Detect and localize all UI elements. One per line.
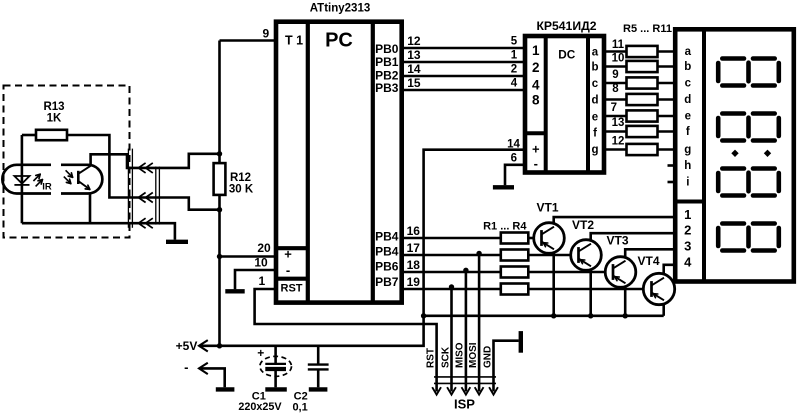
svg-text:1: 1: [684, 207, 691, 222]
svg-text:MISO: MISO: [455, 342, 466, 368]
svg-text:f: f: [593, 128, 597, 140]
svg-text:6: 6: [511, 153, 517, 165]
svg-text:19: 19: [407, 275, 421, 289]
svg-text:0,1: 0,1: [292, 402, 307, 414]
svg-text:R13: R13: [43, 101, 64, 113]
svg-text:-: -: [534, 156, 538, 171]
svg-text:13: 13: [612, 117, 625, 129]
svg-text:VT3: VT3: [606, 234, 628, 248]
svg-text:i: i: [686, 177, 689, 189]
svg-text:b: b: [591, 62, 598, 74]
svg-text:c: c: [592, 78, 599, 90]
svg-text:5: 5: [511, 36, 518, 48]
svg-text:13: 13: [407, 48, 421, 62]
svg-text:11: 11: [612, 39, 625, 51]
svg-text:14: 14: [407, 62, 421, 76]
svg-text:DC: DC: [558, 47, 576, 61]
svg-text:10: 10: [612, 53, 625, 65]
svg-text:16: 16: [407, 224, 421, 238]
svg-text:8: 8: [612, 83, 619, 95]
svg-text:IR: IR: [42, 182, 52, 193]
svg-text:1: 1: [259, 274, 266, 288]
svg-text:12: 12: [407, 34, 421, 48]
svg-text:7: 7: [611, 102, 617, 114]
svg-text:9: 9: [612, 69, 618, 81]
svg-text:T 1: T 1: [285, 34, 303, 48]
svg-text:1K: 1K: [47, 113, 62, 125]
svg-text:PB0: PB0: [375, 42, 399, 56]
svg-text:ATtiny2313: ATtiny2313: [310, 3, 371, 15]
svg-text:VT1: VT1: [536, 201, 558, 215]
svg-text:h: h: [684, 160, 691, 172]
svg-text:g: g: [684, 144, 691, 156]
svg-text:VT4: VT4: [637, 254, 659, 268]
svg-text:4: 4: [532, 78, 540, 93]
svg-text:30 K: 30 K: [229, 184, 254, 196]
svg-text:3: 3: [684, 239, 691, 254]
svg-text:+: +: [532, 142, 540, 157]
svg-text:PB6: PB6: [375, 260, 399, 274]
svg-text:20: 20: [257, 241, 271, 255]
svg-text:g: g: [591, 144, 598, 156]
svg-text:КР541ИД2: КР541ИД2: [536, 19, 596, 33]
svg-text:4: 4: [511, 78, 518, 90]
svg-text:8: 8: [532, 93, 540, 108]
svg-text:-: -: [286, 263, 290, 278]
svg-text:18: 18: [407, 258, 421, 272]
svg-text:a: a: [685, 46, 692, 58]
svg-text:17: 17: [407, 241, 421, 255]
svg-text:15: 15: [407, 76, 421, 90]
svg-text:+: +: [284, 247, 292, 262]
svg-text:PB7: PB7: [375, 275, 399, 289]
svg-text:PB4: PB4: [375, 245, 399, 259]
svg-text:R12: R12: [230, 172, 251, 184]
svg-text:f: f: [686, 126, 690, 138]
svg-text:RST: RST: [425, 348, 436, 368]
svg-text:a: a: [592, 47, 599, 59]
svg-text:10: 10: [254, 256, 268, 270]
svg-text:ISP: ISP: [454, 397, 475, 412]
svg-text:GND: GND: [482, 346, 493, 368]
svg-text:VT2: VT2: [572, 218, 594, 232]
svg-text:4: 4: [684, 255, 692, 270]
svg-text:R1 ... R4: R1 ... R4: [483, 221, 527, 233]
svg-text:2: 2: [532, 60, 540, 75]
svg-text:R5 ... R11: R5 ... R11: [623, 23, 672, 35]
svg-text:PC: PC: [325, 30, 353, 52]
svg-text:220х25V: 220х25V: [238, 401, 282, 413]
svg-text:e: e: [685, 111, 691, 123]
svg-text:PB1: PB1: [375, 55, 399, 69]
svg-text:1: 1: [511, 50, 518, 62]
svg-text:12: 12: [612, 136, 625, 148]
svg-text:d: d: [591, 95, 598, 107]
svg-text:PB4: PB4: [375, 230, 399, 244]
svg-text:1: 1: [532, 43, 540, 58]
svg-text:+: +: [257, 346, 264, 360]
svg-text:c: c: [685, 78, 692, 90]
svg-text:b: b: [684, 61, 691, 73]
svg-text:-: -: [184, 360, 188, 375]
svg-text:+5V: +5V: [176, 339, 198, 353]
svg-text:RST: RST: [281, 283, 303, 295]
svg-text:d: d: [684, 94, 691, 106]
svg-text:PB3: PB3: [375, 81, 399, 95]
svg-text:2: 2: [684, 223, 691, 238]
svg-text:2: 2: [511, 64, 517, 76]
svg-text:e: e: [592, 112, 598, 124]
svg-text:SCK: SCK: [440, 346, 451, 368]
svg-text:9: 9: [262, 27, 269, 41]
svg-text:MOSI: MOSI: [468, 342, 479, 368]
